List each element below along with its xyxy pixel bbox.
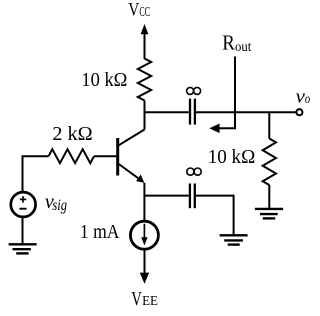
wire emitter node to bypass cap — [144, 195, 188, 197]
wire RL to ground — [268, 185, 270, 208]
wire emitter vertical — [143, 183, 145, 222]
svg-text:V: V — [128, 0, 139, 20]
current source I1 arrow — [141, 224, 147, 246]
VCC supply arrow — [141, 24, 149, 59]
C1 value label infinity — [187, 87, 201, 94]
svg-text:10 kΩ: 10 kΩ — [81, 69, 127, 91]
node output terminal vo — [296, 109, 302, 115]
Rout measurement arrow — [209, 57, 235, 134]
svg-text:out: out — [235, 39, 252, 54]
svg-text:2 kΩ: 2 kΩ — [52, 123, 92, 145]
wire base resistor left lead — [23, 156, 49, 191]
wire collector node to coupling cap — [145, 111, 189, 113]
svg-text:1 mA: 1 mA — [80, 221, 120, 243]
wire collector vertical — [144, 101, 146, 130]
ground (load) — [255, 209, 283, 219]
current source I1 circle — [130, 221, 158, 249]
vsig plus symbol — [20, 196, 26, 202]
transistor Q1 collector lead — [119, 130, 145, 146]
resistor RC 10 kOhm (collector) — [138, 59, 151, 101]
wire vsig to ground — [22, 218, 24, 244]
svg-text:sig: sig — [52, 197, 67, 214]
VCC label — [128, 0, 150, 20]
C2 value label infinity — [187, 168, 201, 175]
vo label — [296, 86, 311, 107]
VEE label — [131, 289, 158, 310]
svg-text:10 kΩ: 10 kΩ — [208, 146, 256, 168]
svg-text:EE: EE — [142, 294, 158, 309]
transistor Q1 base bar — [116, 138, 119, 176]
ground (signal source) — [9, 244, 37, 253]
wire base — [94, 155, 118, 157]
svg-text:CC: CC — [139, 4, 150, 19]
vsig minus symbol — [19, 208, 26, 210]
resistor RB 2 kOhm (base) — [49, 149, 95, 163]
capacitor C2 (bypass, infinite) — [190, 184, 195, 209]
source vsig circle — [11, 192, 36, 217]
svg-text:V: V — [131, 289, 142, 310]
wire C2 to ground — [196, 196, 234, 235]
wire output node to load resistor — [268, 112, 270, 138]
resistor RL 10 kOhm (load) — [263, 139, 276, 186]
VEE supply arrow — [140, 249, 149, 283]
wire C1 to output node — [196, 111, 296, 113]
svg-text:o: o — [305, 91, 310, 106]
vsig label — [45, 189, 67, 214]
svg-text:R: R — [222, 30, 235, 54]
transistor Q1 emitter lead with arrow — [119, 164, 145, 183]
capacitor C1 (coupling, infinite) — [190, 99, 195, 125]
Rout label — [222, 30, 251, 54]
ground (bypass cap) — [220, 235, 248, 244]
